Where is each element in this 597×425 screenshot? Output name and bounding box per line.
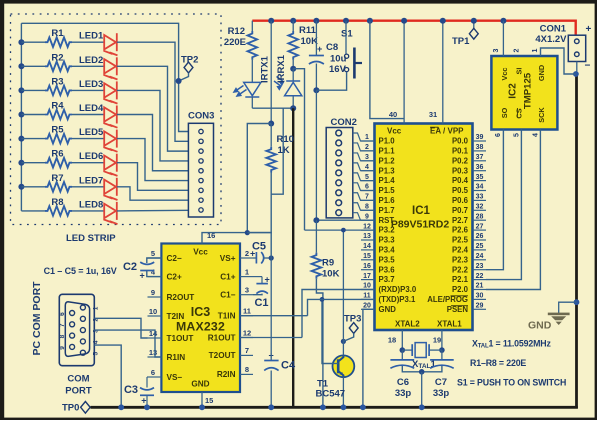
svg-text:P0.2: P0.2: [452, 156, 469, 165]
svg-text:R6: R6: [51, 149, 63, 160]
svg-text:P2.4: P2.4: [452, 246, 469, 255]
pin 3 of COM PORT: [80, 328, 85, 333]
pin 8 of COM PORT: [70, 333, 75, 338]
svg-text:1: 1: [245, 267, 249, 276]
svg-text:P2.1: P2.1: [452, 275, 469, 284]
svg-text:SI: SI: [515, 68, 524, 75]
svg-text:+: +: [250, 249, 255, 259]
node R10 top junction: [268, 121, 274, 127]
svg-text:IC2: IC2: [508, 83, 519, 99]
svg-text:Vcc: Vcc: [387, 127, 402, 136]
svg-text:33p: 33p: [433, 388, 450, 399]
node RST / R9: [313, 217, 319, 223]
wire R1OUT to RXD P3.0: [240, 337, 302, 339]
svg-text:GND: GND: [537, 65, 546, 81]
pin 27 P2.6 of IC1: [473, 229, 487, 231]
svg-text:T1OUT: T1OUT: [167, 334, 194, 343]
wire LED5 cathode to CON3 pin 6: [117, 139, 189, 181]
resistor R1: [21, 41, 45, 43]
svg-text:33p: 33p: [395, 388, 412, 399]
connector CON3: [188, 123, 213, 217]
pin 11 (TXD)P3.1 of IC1: [361, 298, 375, 300]
svg-text:CON2: CON2: [331, 117, 357, 128]
svg-text:4X1.2V: 4X1.2V: [535, 34, 567, 45]
pin 16 P3.6 of IC1: [361, 269, 375, 271]
pin 12 R1OUT of IC3: [240, 337, 253, 339]
svg-text:40: 40: [389, 110, 397, 119]
capacitor C7: [441, 350, 443, 360]
svg-text:11: 11: [243, 307, 251, 316]
wire CON2 pin 9 to RST: [353, 213, 375, 221]
wire IRRX1 signal to P3.2: [293, 69, 304, 230]
svg-text:4: 4: [533, 133, 540, 137]
svg-text:Vcc: Vcc: [500, 68, 509, 81]
pin 26 P2.5 of IC1: [473, 239, 487, 241]
svg-text:P0.6: P0.6: [452, 196, 469, 205]
pin 25 P2.4 of IC1: [473, 249, 487, 251]
svg-text:P2.5: P2.5: [452, 236, 469, 245]
pin 22 P2.1 of IC1: [473, 279, 487, 281]
crystal XTAL1: [402, 349, 412, 351]
pin 2 P1.1 of IC1: [361, 150, 375, 152]
svg-text:SO: SO: [500, 107, 509, 118]
svg-text:8: 8: [365, 204, 369, 211]
svg-text:GND: GND: [379, 305, 397, 314]
svg-text:LED7: LED7: [79, 175, 103, 186]
svg-text:R11: R11: [299, 25, 317, 36]
svg-text:LED6: LED6: [79, 151, 103, 162]
node C8/S1 junction: [313, 87, 319, 93]
wire LED2 cathode to CON3 pin 3: [117, 66, 189, 151]
svg-text:IRRX1: IRRX1: [276, 54, 287, 83]
wire T1 base from TXD: [322, 299, 333, 363]
pin 3 Vcc of IC2: [500, 18, 506, 24]
pin 39 P0.0 of IC1: [473, 140, 487, 142]
svg-text:5: 5: [151, 249, 155, 258]
pin 20 GND of IC1: [361, 308, 375, 310]
pin 10 T2IN of IC3: [148, 315, 162, 317]
svg-text:R1IN: R1IN: [167, 353, 186, 362]
svg-text:4: 4: [365, 164, 369, 171]
svg-text:R2: R2: [51, 52, 63, 63]
wire LED7 cathode to CON3 pin 8: [117, 187, 189, 200]
svg-text:C1 – C5 = 1u, 16V: C1 – C5 = 1u, 16V: [44, 266, 117, 276]
svg-text:P2.7: P2.7: [452, 216, 468, 225]
svg-text:10K: 10K: [301, 36, 319, 47]
svg-text:R5: R5: [51, 125, 64, 136]
svg-text:27: 27: [476, 223, 484, 230]
svg-text:30: 30: [476, 293, 484, 300]
svg-text:9: 9: [59, 346, 66, 350]
pin 9 RST of IC1: [361, 219, 375, 221]
svg-text:P3.3: P3.3: [379, 236, 396, 245]
wire crystal net to ground rail: [421, 372, 423, 408]
svg-text:P3.2: P3.2: [379, 226, 396, 235]
wire CON2 pin 1 to P1.0: [353, 133, 375, 141]
svg-text:LED1: LED1: [79, 31, 104, 42]
node bus junction row 2: [18, 63, 24, 69]
svg-text:7: 7: [365, 194, 369, 201]
pin 1 of COM PORT: [80, 305, 85, 310]
wire TXD P3.1 net: [240, 315, 308, 317]
svg-text:6: 6: [151, 368, 155, 377]
wire DB9 pin 3 to R1IN: [94, 330, 161, 357]
wire LED3 cathode to CON3 pin 4: [117, 90, 189, 161]
pin 13 R1IN of IC3: [148, 356, 162, 358]
svg-text:R10: R10: [277, 134, 294, 145]
pin 7 T2OUT of IC3: [240, 354, 253, 356]
svg-text:28: 28: [476, 213, 484, 220]
resistor R6: [21, 162, 45, 164]
wire LED8 cathode to CON3 pin 9: [117, 209, 189, 212]
svg-text:CS: CS: [515, 108, 524, 118]
svg-text:32: 32: [476, 204, 484, 211]
svg-text:R2IN: R2IN: [217, 370, 236, 379]
svg-text:19: 19: [433, 335, 441, 344]
svg-text:8: 8: [245, 365, 249, 374]
svg-text:P0.5: P0.5: [452, 186, 469, 195]
pin 6 P1.5 of IC1: [361, 190, 375, 192]
node black bus junction: [290, 105, 296, 111]
svg-text:3: 3: [493, 49, 500, 53]
svg-text:+: +: [140, 271, 145, 281]
photo border frame: [0, 0, 597, 4]
pin 29 PSEN of IC1: [473, 308, 487, 310]
svg-text:R1–R8 = 220E: R1–R8 = 220E: [470, 358, 526, 368]
wire DB9 pin 5 to ground: [94, 345, 121, 407]
pin 9 of COM PORT: [70, 344, 75, 349]
node bus junction row 1: [18, 39, 24, 45]
svg-text:PC COM PORT: PC COM PORT: [31, 281, 43, 356]
pin 24 P2.3 of IC1: [473, 259, 487, 261]
svg-text:6: 6: [365, 184, 369, 191]
wire IRTX1 cathode to IRRX1 cathode: [252, 107, 293, 109]
pin 14 T1OUT of IC3: [148, 337, 162, 339]
svg-text:P3.6: P3.6: [379, 265, 396, 274]
node C5 to Vcc line: [269, 255, 274, 260]
node rail junction R10: [268, 18, 274, 24]
pin 37 P0.2 of IC1: [473, 160, 487, 162]
wire CON2 pin 4 to P1.3: [353, 163, 375, 171]
node IRRX1 anode junction: [290, 66, 296, 72]
resistor R2: [21, 65, 45, 67]
svg-text:13: 13: [363, 233, 371, 240]
svg-text:34: 34: [476, 184, 484, 191]
wire CON1 minus to ground bus: [576, 62, 578, 75]
svg-text:2: 2: [365, 144, 369, 151]
svg-text:11: 11: [363, 293, 371, 300]
svg-text:P1.5: P1.5: [379, 186, 396, 195]
svg-text:C1−: C1−: [220, 291, 235, 300]
pin 13 P3.3 of IC1: [361, 239, 375, 241]
node T1 collector junction: [341, 339, 346, 344]
svg-text:31: 31: [429, 110, 437, 119]
resistor R7: [21, 186, 45, 188]
svg-text:22: 22: [476, 273, 484, 280]
svg-text:1: 1: [365, 134, 369, 141]
dashed enclosure LED strip: [11, 14, 222, 225]
resistor R3: [21, 89, 45, 91]
svg-text:T1IN: T1IN: [218, 312, 236, 321]
node XTAL1 / C7: [439, 347, 445, 353]
svg-text:1: 1: [532, 49, 539, 53]
svg-text:P0.3: P0.3: [452, 166, 469, 175]
svg-text:C1+: C1+: [220, 272, 235, 281]
LED LED3: [104, 81, 118, 103]
svg-text:P0.1: P0.1: [452, 147, 469, 156]
wire DB9 pin 2 to T1OUT: [94, 318, 147, 338]
svg-text:P2.2: P2.2: [452, 265, 469, 274]
wire CS to P2.1: [486, 130, 521, 280]
svg-text:25: 25: [476, 243, 484, 250]
pin 6 of COM PORT: [70, 311, 75, 316]
svg-text:9: 9: [365, 213, 369, 220]
svg-text:LED4: LED4: [79, 103, 104, 114]
svg-text:33: 33: [476, 194, 484, 201]
svg-text:P3.4: P3.4: [379, 246, 396, 255]
svg-text:GND: GND: [191, 380, 209, 389]
pin 23 P2.2 of IC1: [473, 269, 487, 271]
pin 3 P1.2 of IC1: [361, 160, 375, 162]
pin 5 P1.4 of IC1: [361, 180, 375, 182]
pin 21 P2.0 of IC1: [473, 289, 487, 291]
svg-text:29: 29: [476, 303, 484, 310]
svg-text:R7: R7: [51, 173, 63, 184]
pin 7 P1.6 of IC1: [361, 199, 375, 201]
wire RST net: [316, 219, 374, 221]
svg-text:CON3: CON3: [188, 111, 214, 122]
pin 5 C2- of IC3: [148, 257, 162, 259]
svg-text:5: 5: [93, 352, 100, 356]
svg-text:21: 21: [476, 283, 484, 290]
pin 1 C1+ of IC3: [240, 276, 253, 278]
svg-text:2: 2: [514, 49, 521, 53]
resistor R5: [21, 138, 45, 140]
ground symbol GND: [574, 299, 580, 305]
capacitor C6: [401, 350, 403, 360]
svg-text:13: 13: [149, 348, 157, 357]
svg-text:R9: R9: [322, 258, 334, 269]
wire LED6 cathode to CON3 pin 7: [117, 163, 189, 191]
node bus junction row 5: [18, 136, 24, 142]
svg-text:R4: R4: [51, 101, 64, 112]
svg-text:2: 2: [245, 249, 249, 258]
wire CON2 pin 8 to P1.7: [353, 203, 375, 211]
wire R10 bottom to IR cathodes: [247, 173, 271, 233]
svg-text:LED3: LED3: [79, 79, 103, 90]
svg-text:1: 1: [93, 306, 100, 310]
IC U3 RS232 driver IC3 MAX232 body: [161, 244, 240, 393]
svg-text:C1: C1: [254, 297, 268, 309]
LED LED5: [104, 130, 118, 152]
svg-text:+: +: [586, 24, 592, 35]
wire IC2 GND to CON1 minus: [541, 48, 576, 74]
node rail junction C8: [313, 18, 319, 24]
svg-text:35: 35: [476, 174, 484, 181]
svg-text:R12: R12: [228, 26, 245, 37]
LED LED7: [104, 178, 118, 200]
svg-text:T2IN: T2IN: [167, 312, 185, 321]
svg-text:P2.3: P2.3: [452, 255, 469, 264]
svg-text:8: 8: [59, 334, 66, 338]
transistor T1 BC547: [333, 355, 355, 377]
node rail junction R11: [290, 18, 296, 24]
svg-text:5: 5: [514, 133, 521, 137]
pin 2 VS+ of IC3: [240, 257, 253, 259]
pin 14 P3.4 of IC1: [361, 249, 375, 251]
node bus junction row 3: [18, 87, 24, 93]
node bus junction row 6: [18, 160, 24, 166]
svg-text:TP1: TP1: [452, 36, 470, 47]
wire LED1 cathode to CON3 pin 2: [117, 42, 189, 141]
svg-text:LED5: LED5: [79, 127, 104, 138]
svg-text:15: 15: [205, 396, 213, 405]
svg-text:T2OUT: T2OUT: [209, 351, 236, 360]
pin 35 P0.4 of IC1: [473, 180, 487, 182]
pin 5 of COM PORT: [80, 350, 85, 355]
photodiode IRRX1: [292, 69, 294, 81]
pin 9 R2OUT of IC3: [148, 296, 162, 298]
svg-text:C2+: C2+: [167, 272, 182, 281]
ground bus right: [575, 74, 578, 409]
svg-text:SCK: SCK: [537, 107, 546, 123]
pin 7 of COM PORT: [70, 322, 75, 327]
svg-text:C3: C3: [124, 384, 138, 396]
svg-text:+: +: [317, 44, 322, 54]
svg-text:6: 6: [495, 133, 502, 137]
svg-text:6: 6: [59, 312, 66, 316]
svg-text:P1.7: P1.7: [379, 206, 395, 215]
pin 2 of COM PORT: [80, 316, 85, 321]
svg-text:P1.3: P1.3: [379, 166, 396, 175]
svg-text:IRTX1: IRTX1: [260, 55, 271, 83]
svg-text:26: 26: [476, 233, 484, 240]
pin 6 VS- of IC3: [148, 376, 162, 378]
IC U2 temperature sensor IC2 TMP125 body: [491, 56, 557, 130]
svg-text:GND: GND: [528, 320, 552, 332]
pin 4 of COM PORT: [80, 339, 85, 344]
svg-text:LED8: LED8: [79, 199, 103, 210]
power rail Vcc: [252, 21, 575, 36]
wire SO to P2.2: [486, 130, 503, 270]
wire CON2 pin 2 to P1.1: [353, 143, 375, 151]
svg-text:S1: S1: [341, 29, 353, 40]
wire left bus of LED strip: [20, 23, 22, 211]
svg-text:XTAL1: XTAL1: [437, 320, 462, 329]
svg-text:P1.4: P1.4: [379, 176, 396, 185]
svg-text:R1: R1: [51, 28, 64, 39]
svg-text:−: −: [585, 61, 591, 72]
svg-text:R1OUT: R1OUT: [208, 333, 236, 342]
pin 15 P3.5 of IC1: [361, 259, 375, 261]
svg-text:P3.5: P3.5: [379, 255, 396, 264]
wire CON2 pin 3 to P1.2: [353, 153, 375, 161]
svg-text:MAX232: MAX232: [176, 320, 225, 334]
wire P3.2 net: [305, 229, 375, 231]
svg-text:LED2: LED2: [79, 55, 103, 66]
svg-text:14: 14: [363, 243, 371, 250]
node bus junction row 7: [18, 184, 24, 190]
svg-text:C8: C8: [326, 42, 338, 53]
pin 30 ALE/PROG of IC1: [473, 298, 487, 300]
wire GND pin of IC1 to rail: [363, 309, 375, 407]
capacitor C8: [315, 21, 317, 55]
svg-text:XTAL2: XTAL2: [395, 320, 420, 329]
pin 4 P1.3 of IC1: [361, 170, 375, 172]
wire top common of LED strip: [21, 23, 188, 131]
ground rail bottom: [91, 406, 578, 409]
pin 36 P0.3 of IC1: [473, 170, 487, 172]
svg-text:15: 15: [363, 253, 371, 260]
svg-text:39: 39: [476, 134, 484, 141]
svg-text:12: 12: [243, 328, 251, 337]
svg-text:7: 7: [245, 346, 249, 355]
pin 38 P0.1 of IC1: [473, 150, 487, 152]
svg-text:24: 24: [476, 253, 484, 260]
pin 28 P2.7 of IC1: [473, 219, 487, 221]
pin 3 C1- of IC3: [240, 294, 253, 296]
wire black ground drop: [292, 108, 294, 407]
svg-text:5: 5: [365, 174, 369, 181]
pin 11 T1IN of IC3: [240, 315, 253, 317]
svg-text:C2−: C2−: [167, 254, 182, 263]
svg-text:R8: R8: [51, 197, 63, 208]
svg-text:10: 10: [363, 283, 371, 290]
svg-text:20: 20: [363, 303, 371, 310]
LED LED2: [104, 57, 118, 79]
svg-text:P3.7: P3.7: [379, 275, 395, 284]
wire R10 elbow to IR cathodes: [271, 108, 283, 194]
svg-text:Vcc: Vcc: [193, 248, 208, 257]
svg-text:C4: C4: [281, 360, 296, 372]
svg-text:220E: 220E: [224, 37, 246, 48]
IC U1 microcontroller IC1 P89V51RD2 body: [375, 124, 473, 331]
svg-text:+: +: [141, 396, 146, 406]
svg-text:P0.4: P0.4: [452, 176, 469, 185]
pin 12 P3.2 of IC1: [361, 229, 375, 231]
svg-text:36: 36: [476, 164, 484, 171]
svg-text:7: 7: [59, 323, 66, 327]
wire rail branch to Vcc pin: [367, 18, 373, 24]
pin 32 P0.7 of IC1: [473, 209, 487, 211]
svg-text:4: 4: [93, 340, 100, 344]
pin 17 P3.7 of IC1: [361, 279, 375, 281]
svg-text:P1.2: P1.2: [379, 156, 396, 165]
svg-text:P1.0: P1.0: [379, 137, 396, 146]
svg-text:CON1: CON1: [540, 24, 567, 35]
svg-text:TP0: TP0: [62, 403, 79, 414]
wire collector to P3.2 net: [342, 230, 344, 341]
pin 33 P0.6 of IC1: [473, 199, 487, 201]
svg-text:37: 37: [476, 154, 484, 161]
LED LED8: [104, 202, 118, 224]
node C6/C7 junction: [419, 369, 425, 375]
svg-text:P0.7: P0.7: [452, 206, 468, 215]
svg-text:38: 38: [476, 144, 484, 151]
connector DB9 COM PORT body: [59, 294, 94, 365]
svg-text:18: 18: [388, 335, 396, 344]
svg-text:(RXD)P3.0: (RXD)P3.0: [379, 285, 417, 294]
svg-text:EA / VPP: EA / VPP: [430, 127, 464, 136]
svg-text:P2.0: P2.0: [452, 285, 469, 294]
svg-text:9: 9: [151, 288, 155, 297]
svg-text:IC1: IC1: [412, 205, 431, 217]
svg-text:P1.6: P1.6: [379, 196, 396, 205]
wire R9 to ground rail: [316, 279, 323, 408]
svg-text:23: 23: [476, 263, 484, 270]
wire reset net to RST: [315, 90, 317, 220]
IR LED IRTX1: [234, 82, 261, 97]
